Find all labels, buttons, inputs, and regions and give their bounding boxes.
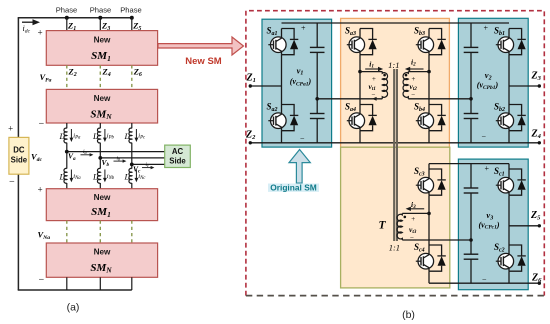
current arrow i_Pb <box>104 129 106 140</box>
svg-text:−: − <box>482 275 487 284</box>
wire: phase b drop to SM1 <box>99 18 101 31</box>
dashed boundary box (left, top, right red) <box>246 11 544 296</box>
current arrow i_Na <box>70 170 72 180</box>
wire: coil c to node Vc <box>131 143 133 169</box>
transistor S_b3 <box>416 29 446 55</box>
dashed link phase a upper <box>66 65 68 89</box>
wire: phase a SMN to coil <box>66 123 68 128</box>
svg-text:−: − <box>38 275 45 286</box>
svg-text:+: + <box>8 124 14 134</box>
transistor S_b4 <box>416 105 446 131</box>
transistor S_a4 <box>347 105 377 131</box>
inductor L upper phase c <box>129 128 132 143</box>
current arrow i_Pc <box>135 129 137 140</box>
submodule box SMN lower <box>46 243 157 277</box>
capacitor C_a lower <box>310 113 325 115</box>
svg-text:New: New <box>94 193 111 202</box>
wire: phase c SMN to bottom bus <box>131 277 133 290</box>
wire: a-aux leg bottom segment <box>359 131 361 143</box>
svg-text:−: − <box>9 177 16 188</box>
wire: coil b to node Vb <box>99 143 101 169</box>
wire: leg midpoint to Z5 <box>509 225 539 227</box>
wire: Z1 to leg midpoint <box>250 85 281 87</box>
current arrow i_dc <box>22 21 35 23</box>
capacitor C_c upper <box>470 164 472 188</box>
transistor S_a1 <box>268 29 298 55</box>
transformer winding 3 (phase c) <box>397 213 402 240</box>
dashed link phase c lower <box>131 221 133 243</box>
svg-text:Z5: Z5 <box>530 210 541 222</box>
svg-text:New: New <box>94 248 111 257</box>
svg-text:iNa: iNa <box>73 173 81 181</box>
wire: a-aux midpoint to winding 1 <box>360 71 382 73</box>
svg-text:VNa: VNa <box>38 230 51 242</box>
svg-text:Z1: Z1 <box>246 73 256 85</box>
transistor S_b1 <box>496 29 526 55</box>
svg-text:Z6: Z6 <box>133 67 142 79</box>
junction cap-c midpoint <box>469 238 473 242</box>
svg-text:+: + <box>37 28 43 38</box>
svg-text:Z3: Z3 <box>531 70 542 82</box>
svg-text:New: New <box>94 94 111 103</box>
submodule box SMN upper <box>46 89 157 123</box>
inductor L lower phase c <box>129 168 132 183</box>
inductor L upper phase a <box>64 128 67 143</box>
dashed boundary bottom (dark) <box>246 295 547 297</box>
node Vb <box>98 156 102 160</box>
node Vc <box>130 163 134 167</box>
wire: b-aux leg bottom segment <box>428 131 430 143</box>
junction b-aux midpoint <box>427 70 431 74</box>
svg-text:Vb: Vb <box>102 158 110 168</box>
junction cap-b midpoint <box>469 97 473 101</box>
transistor S_a3 <box>347 29 377 55</box>
node Va <box>65 150 69 154</box>
svg-text:Original SM: Original SM <box>270 183 317 193</box>
svg-text:DC: DC <box>13 146 25 155</box>
junction a-aux midpoint <box>358 70 362 74</box>
svg-text:Z4: Z4 <box>102 67 111 79</box>
polarity dot winding 3 <box>404 216 407 219</box>
capacitor C_b upper <box>470 23 472 47</box>
svg-text:(a): (a) <box>67 302 80 314</box>
svg-text:ic: ic <box>146 162 150 168</box>
svg-text:ib: ib <box>117 156 121 162</box>
svg-text:L: L <box>59 172 65 182</box>
svg-text:+: + <box>484 164 489 173</box>
svg-text:Z4: Z4 <box>531 129 542 141</box>
svg-text:VPa: VPa <box>40 72 52 84</box>
wire: c-aux leg top segment <box>428 164 430 169</box>
svg-text:+: + <box>372 75 377 83</box>
dashed link phase a lower <box>66 221 68 243</box>
wire: c-aux leg mid segment <box>428 195 430 245</box>
submodule box SM1 lower <box>46 189 157 221</box>
capacitor C_a upper <box>316 23 318 47</box>
dashed link phase b lower <box>99 221 101 243</box>
wire: phase a SMN to bottom bus <box>66 277 68 290</box>
annotation arrow Original SM <box>289 150 310 184</box>
svg-text:Phase: Phase <box>90 6 112 15</box>
olive region (lower DAB section) <box>341 147 450 288</box>
svg-text:Z2: Z2 <box>68 67 77 79</box>
svg-text:−: − <box>411 91 416 99</box>
inductor L upper phase b <box>97 128 100 143</box>
wire: c-aux leg bottom segment <box>428 271 430 283</box>
polarity dot winding 1 <box>383 74 386 77</box>
wire: Vb to AC side <box>100 157 164 159</box>
svg-text:iPb: iPb <box>107 133 115 141</box>
svg-text:+: + <box>37 185 43 195</box>
wire: winding 1 bottom to cap-a midpoint <box>317 98 382 100</box>
svg-text:iNb: iNb <box>107 173 115 181</box>
wire: bottom rail (c section) to Z6 <box>429 282 539 284</box>
inductor L lower phase a <box>64 168 67 183</box>
wire: phase-b leg mid segment <box>508 55 510 105</box>
svg-text:Va: Va <box>68 152 76 162</box>
label Original SM <box>268 184 319 192</box>
wire: phase c drop to SM1 <box>131 18 133 31</box>
wire: winding 3 top to c-aux midpoint <box>402 212 429 214</box>
transistor S_c2 <box>496 245 526 271</box>
wire: phase b SMN to coil <box>99 123 101 128</box>
svg-text:iPa: iPa <box>73 133 81 141</box>
wire: cap a to mid node <box>316 52 318 113</box>
svg-text:−: − <box>38 119 45 130</box>
svg-text:1:1: 1:1 <box>388 60 399 70</box>
wire: winding 2 bottom to cap-b midpoint <box>408 98 471 100</box>
wire: bottom rail Z2 to Z4 <box>250 142 539 144</box>
wire: coil c to SM1 lower <box>131 183 133 189</box>
svg-text:Phase: Phase <box>56 6 78 15</box>
svg-text:−: − <box>410 234 415 242</box>
svg-text:−: − <box>481 133 486 142</box>
svg-text:L: L <box>59 131 65 141</box>
junction c-aux midpoint <box>427 212 431 216</box>
svg-text:L: L <box>124 131 130 141</box>
wire: winding 2 top to b-aux midpoint <box>408 71 429 73</box>
wire: Va to AC side <box>67 151 165 153</box>
blue box phase-b SM <box>458 18 528 147</box>
inductor L lower phase b <box>97 168 100 183</box>
svg-text:L: L <box>92 131 98 141</box>
wire: phase a drop to SM1 <box>66 18 68 31</box>
node dot phase b <box>98 16 102 20</box>
svg-text:+: + <box>483 23 488 32</box>
svg-text:−: − <box>371 91 376 99</box>
wire: cap c to mid node <box>470 193 472 254</box>
wire: DC bus left rail <box>17 18 19 290</box>
wire: phase-b leg bottom segment <box>508 131 510 143</box>
polarity dot winding 2 <box>405 74 408 77</box>
svg-text:1:1: 1:1 <box>389 243 400 253</box>
svg-text:AC: AC <box>172 147 184 156</box>
svg-text:Phase: Phase <box>120 6 142 15</box>
submodule box SM1 upper <box>46 31 157 66</box>
svg-text:−: − <box>300 134 305 143</box>
transformer winding 1 (phase a) <box>382 72 387 99</box>
annotation arrow New SM <box>158 37 244 55</box>
current arrow i_Nc <box>135 170 137 180</box>
wire: phase c SMN to coil <box>131 123 133 128</box>
wire: a-aux leg mid segment <box>359 55 361 105</box>
node dot phase c <box>130 16 134 20</box>
wire: leg midpoint to Z3 <box>509 85 539 87</box>
svg-text:(b): (b) <box>402 309 415 321</box>
svg-text:Vdc: Vdc <box>31 152 43 164</box>
transistor S_c1 <box>496 169 526 195</box>
svg-text:ia: ia <box>83 149 87 155</box>
wire: phase-c leg bottom segment <box>508 271 510 283</box>
svg-text:T: T <box>379 220 387 232</box>
wire: coil b to SM1 lower <box>99 183 101 189</box>
wire: top rail (a/b section) <box>282 22 510 24</box>
svg-text:New SM: New SM <box>185 56 222 67</box>
svg-text:New: New <box>94 35 111 44</box>
capacitor C_b lower <box>464 113 479 115</box>
junction cap-a midpoint <box>315 97 319 101</box>
svg-text:Side: Side <box>169 156 186 165</box>
transistor S_b2 <box>496 105 526 131</box>
svg-text:iPc: iPc <box>138 133 146 141</box>
wire: phase-a leg mid segment <box>281 55 283 105</box>
wire: top bus <box>18 17 132 19</box>
dashed link phase b upper <box>99 65 101 89</box>
wire: top rail (c section) <box>429 163 509 165</box>
wire: bottom bus <box>18 289 132 291</box>
svg-text:+: + <box>301 24 306 33</box>
transformer T core <box>393 69 395 241</box>
load box AC Side <box>165 145 191 167</box>
svg-text:L: L <box>92 172 98 182</box>
current arrow i_Pa <box>70 129 72 140</box>
capacitor C_c lower <box>464 253 479 255</box>
transistor S_c4 <box>416 245 446 271</box>
svg-text:Z2: Z2 <box>245 130 256 142</box>
wire: Vc to AC side <box>132 163 165 165</box>
node dot phase a <box>65 16 69 20</box>
svg-text:iNc: iNc <box>138 173 146 181</box>
wire: coil a to node Va <box>66 143 68 169</box>
svg-text:idc: idc <box>23 24 31 35</box>
transistor S_c3 <box>416 169 446 195</box>
svg-text:L: L <box>124 172 130 182</box>
svg-text:+: + <box>411 215 416 223</box>
dashed link phase c upper <box>131 65 133 89</box>
wire: winding 3 bottom to cap-c midpoint <box>402 239 471 241</box>
wire: phase-c leg mid segment <box>508 195 510 245</box>
transistor S_a2 <box>268 105 298 131</box>
wire: phase-a leg bottom segment <box>281 131 283 143</box>
transformer winding 2 (phase b) <box>403 72 408 99</box>
orange region (upper DAB section) <box>341 18 450 147</box>
blue box phase-a SM <box>262 19 332 147</box>
wire: phase b SMN to bottom bus <box>99 277 101 290</box>
current arrow i_Nb <box>104 170 106 180</box>
svg-text:Side: Side <box>11 155 28 164</box>
wire: cap b to mid node <box>470 52 472 113</box>
wire: phase-c leg top segment <box>508 164 510 169</box>
wire: coil a to SM1 lower <box>66 183 68 189</box>
blue box phase-c SM <box>458 159 528 290</box>
source box DC Side <box>9 137 29 174</box>
wire: b-aux leg mid segment <box>428 55 430 105</box>
return arrowhead on winding 1 bottom wire <box>372 97 377 101</box>
